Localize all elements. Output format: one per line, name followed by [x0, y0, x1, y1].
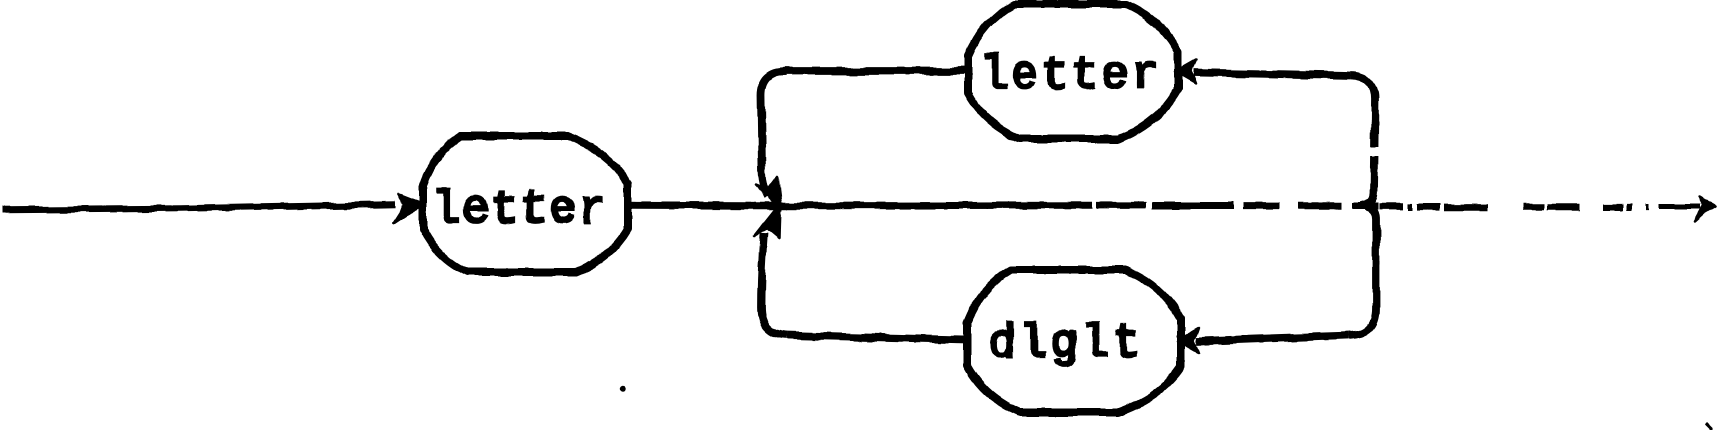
- wire lower loop bottom-right horizontal: [1197, 336, 1349, 342]
- arrowhead up into left junction: [755, 204, 780, 239]
- arrowhead down into left junction: [756, 177, 781, 210]
- wire exit shaft: [1659, 205, 1700, 211]
- stray dot artifact: [620, 385, 626, 391]
- arrowhead exit: [1695, 197, 1717, 223]
- wire upper loop top-right horizontal: [1194, 73, 1351, 76]
- svg-text:letter: letter: [433, 184, 608, 236]
- stray tick artifact bottom right: [1706, 423, 1712, 429]
- arrowhead into upper letter box: [1175, 60, 1196, 84]
- box digit: [967, 270, 1181, 412]
- wire from first box to branch junction: [628, 201, 756, 209]
- wire upper loop right vertical with corners: [1351, 76, 1375, 206]
- wire lower loop left vertical with bottom corner: [761, 233, 786, 336]
- wire exit dashed line: [1379, 203, 1649, 210]
- wire main line dashed part before right junction: [1096, 202, 1378, 210]
- wire main line between junctions: [756, 202, 1092, 210]
- wire lower loop bottom-left horizontal: [786, 336, 967, 341]
- wire main entry line: [2, 205, 396, 211]
- svg-text:dlglt: dlglt: [988, 318, 1144, 370]
- arrowhead into digit box: [1178, 329, 1199, 353]
- svg-text:letter: letter: [981, 50, 1162, 102]
- wire upper loop left vertical with top corner: [761, 72, 786, 198]
- box letter (upper): [968, 4, 1178, 139]
- wire lower loop right vertical with corner: [1349, 207, 1376, 336]
- box letter (first): [423, 136, 628, 272]
- wire upper loop top-left horizontal: [784, 67, 968, 75]
- arrowhead into first letter box: [394, 195, 425, 224]
